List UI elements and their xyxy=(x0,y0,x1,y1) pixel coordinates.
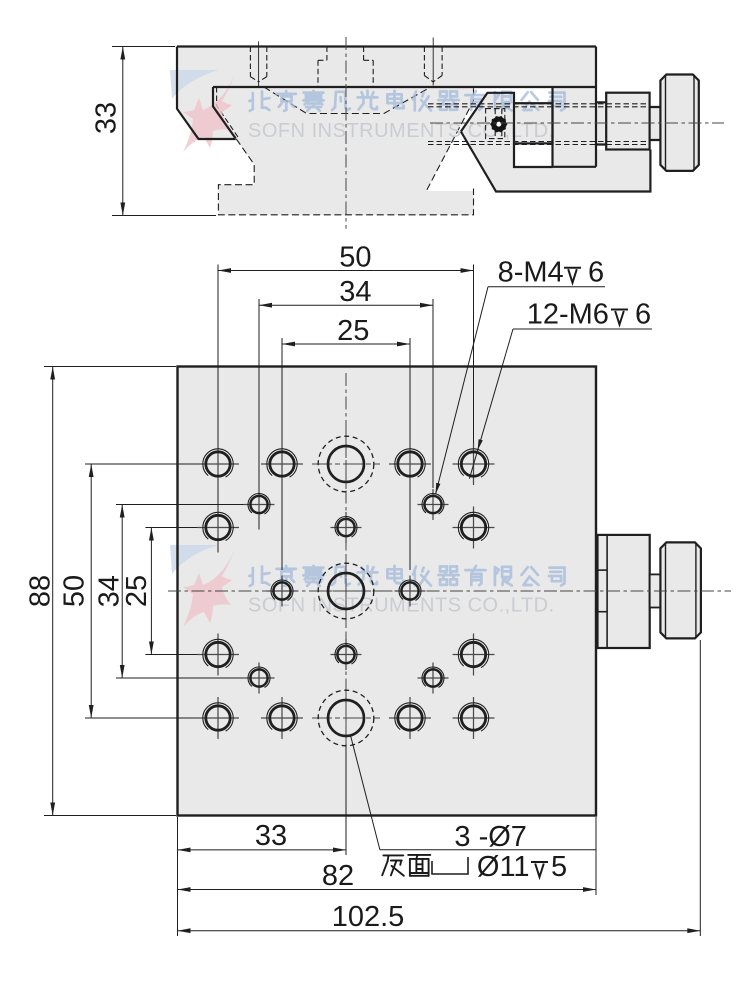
extension lines left dims xyxy=(44,366,176,368)
svg-text:6: 6 xyxy=(635,299,651,331)
screw hole right (dashed) xyxy=(424,47,442,82)
bottom view micrometer: shaft xyxy=(650,574,661,607)
through hole D7 with D11 counterbore top xyxy=(312,463,380,465)
micrometer horizontal centerline xyxy=(430,122,724,124)
svg-text:33: 33 xyxy=(91,102,123,134)
white pocket below clamp block xyxy=(514,143,553,166)
saddle left edge xyxy=(213,87,236,139)
dim 34 left xyxy=(121,505,123,679)
dim 50 top xyxy=(218,270,474,272)
M6 tapped hole 10 xyxy=(261,717,303,719)
thimble fill xyxy=(606,93,649,150)
watermark logo (top view) xyxy=(170,70,235,152)
M6 tapped hole 3 xyxy=(389,463,431,465)
screw hole left (dashed) xyxy=(250,47,266,82)
micrometer body block fill xyxy=(553,87,597,167)
M6 tapped hole 7 xyxy=(197,654,239,656)
side view vertical centerline xyxy=(345,37,347,229)
M6 tapped hole 2 xyxy=(261,463,303,465)
svg-text:82: 82 xyxy=(322,860,354,892)
set screw dashed box xyxy=(486,109,505,139)
dim 102.5 bottom xyxy=(178,930,701,932)
M6 tapped hole 8 xyxy=(453,654,495,656)
hidden spindle lines (dashed pairs) xyxy=(428,103,650,105)
svg-text:34: 34 xyxy=(339,276,371,308)
svg-text:Ø11: Ø11 xyxy=(477,851,530,883)
M4 tapped hole 3 xyxy=(267,590,298,592)
base hidden outline (dashed) xyxy=(218,139,473,215)
M4 tapped hole 6 xyxy=(331,654,362,656)
svg-text:50: 50 xyxy=(339,242,371,274)
M6 tapped hole 4 xyxy=(453,463,495,465)
svg-text:88: 88 xyxy=(25,575,57,607)
bottom view micrometer: clamp block xyxy=(598,535,650,648)
svg-text:6: 6 xyxy=(588,257,604,289)
dim 50 left xyxy=(90,464,92,718)
bracket bottom arm fill xyxy=(514,150,650,192)
counterbore symbol xyxy=(432,857,468,874)
dim 88 left xyxy=(52,367,54,816)
bracket outline xyxy=(461,93,514,132)
bottom extension lines xyxy=(345,744,347,855)
dim 33 bottom xyxy=(178,849,347,851)
svg-text:102.5: 102.5 xyxy=(332,901,405,933)
leader 3-D7 counterbore xyxy=(380,849,597,851)
dim 34 top xyxy=(259,304,433,306)
screw hole right centerline xyxy=(432,38,434,86)
leader 8-M4 xyxy=(488,286,605,288)
svg-text:50: 50 xyxy=(59,575,91,607)
knob fill xyxy=(660,75,698,171)
top plate outline xyxy=(177,45,596,47)
M4 tapped hole 8 xyxy=(418,677,449,679)
svg-text:25: 25 xyxy=(121,575,153,607)
micrometer bracket (pentagon head) fill xyxy=(461,93,514,192)
M4 tapped hole 7 xyxy=(244,677,275,679)
watermark chinese text (bottom): pseudo glyph strokes xyxy=(249,566,564,586)
M6 tapped hole 5 xyxy=(197,527,239,529)
watermark logo (bottom view) xyxy=(170,545,235,627)
main plate outline xyxy=(178,367,597,816)
watermark chinese text (top): pseudo glyph strokes xyxy=(249,91,564,111)
set screw knurled head xyxy=(504,123,507,126)
bottom view micrometer: knob xyxy=(660,542,701,638)
dim 25 top xyxy=(282,343,410,345)
spindle shaft fill xyxy=(650,107,661,140)
svg-text:5: 5 xyxy=(551,851,567,883)
sleeve stub fill xyxy=(596,102,606,144)
dim 82 bottom xyxy=(178,889,597,891)
M4 tapped hole 4 xyxy=(395,590,426,592)
shaft outline xyxy=(650,107,661,140)
sleeve stub outline xyxy=(596,102,606,144)
M6 tapped hole 9 xyxy=(197,717,239,719)
logo red swoosh star xyxy=(183,74,235,152)
dim 33 (side view) xyxy=(112,46,175,48)
logo red swoosh star xyxy=(183,549,235,627)
logo blue sail xyxy=(170,545,219,574)
M6 tapped hole 6 xyxy=(453,527,495,529)
through hole D7 with D11 counterbore bottom xyxy=(312,717,380,719)
extension lines top dims xyxy=(217,265,219,553)
svg-text:25: 25 xyxy=(337,315,369,347)
side view: white gap around micrometer bracket xyxy=(427,88,553,191)
clamp block outline xyxy=(514,103,553,143)
knob outline xyxy=(660,75,698,171)
through hole D7 with D11 counterbore middle xyxy=(312,590,380,592)
micrometer body outline xyxy=(553,87,597,167)
svg-text:12-M6: 12-M6 xyxy=(527,299,609,331)
M6 tapped hole 11 xyxy=(389,717,431,719)
svg-text:3 -Ø7: 3 -Ø7 xyxy=(454,821,527,853)
central T-slot (dashed) xyxy=(318,47,373,88)
dim 25 left xyxy=(150,528,152,655)
main plate fill xyxy=(178,367,597,816)
M4 tapped hole 1 xyxy=(244,504,275,506)
screw hole left centerline xyxy=(258,42,260,87)
thimble outline xyxy=(606,93,649,150)
M4 tapped hole 2 xyxy=(418,504,449,506)
logo blue sail xyxy=(170,70,219,99)
bracket clamp block fill xyxy=(514,103,553,143)
svg-text:33: 33 xyxy=(255,820,287,852)
bottom view center lines xyxy=(168,590,560,592)
platform/saddle split line xyxy=(213,86,596,88)
saddle hidden edge (dashed) xyxy=(217,87,239,139)
svg-text:8-M4: 8-M4 xyxy=(498,257,564,289)
M6 tapped hole 12 xyxy=(453,717,495,719)
M4 tapped hole 5 xyxy=(331,527,362,529)
dovetail groove hidden lines (dashed) xyxy=(264,87,431,114)
M6 tapped hole 1 xyxy=(197,463,239,465)
side view: saddle and base fill xyxy=(213,87,474,215)
text 反面 (drawn strokes) xyxy=(382,855,430,876)
side view: top plate body fill xyxy=(177,47,596,88)
leader 12-M6 xyxy=(513,328,652,330)
micrometer centerline (plan) xyxy=(560,590,731,592)
